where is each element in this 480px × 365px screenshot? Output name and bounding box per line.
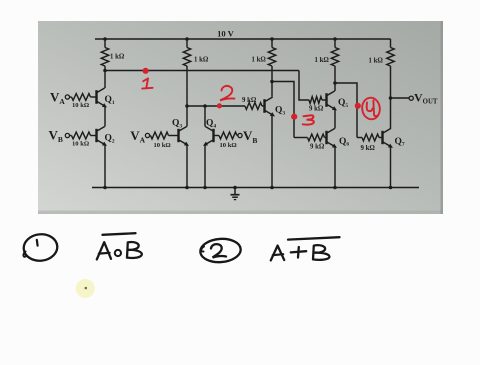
ground symbol bbox=[234, 188, 236, 195]
handwritten A.B overline bbox=[103, 233, 136, 235]
handwritten circled 1 bbox=[22, 233, 58, 263]
transistor Q3 bbox=[177, 129, 179, 142]
resistor 9k (node2 to Q5 base... mid transistor base) bbox=[245, 103, 262, 110]
transistor Q6 bbox=[325, 131, 327, 144]
node 3 wiring bbox=[270, 80, 274, 84]
handwritten A (expr2) bbox=[271, 246, 284, 261]
handwritten dot (expr1) bbox=[115, 250, 121, 256]
red circled 4 bbox=[361, 97, 381, 121]
red node marker 3 bbox=[291, 114, 297, 120]
handwritten B (expr1) bbox=[127, 242, 142, 258]
svg-text:9 kΩ: 9 kΩ bbox=[361, 145, 376, 152]
red handwritten 1 bbox=[143, 78, 148, 88]
output VOUT bbox=[389, 96, 393, 100]
svg-text:10 kΩ: 10 kΩ bbox=[72, 102, 89, 109]
handwritten plus (expr2) bbox=[291, 247, 306, 258]
svg-text:1 kΩ: 1 kΩ bbox=[315, 57, 330, 64]
svg-text:1 kΩ: 1 kΩ bbox=[369, 57, 384, 64]
svg-text:10 kΩ: 10 kΩ bbox=[72, 141, 89, 148]
input VB (Q4) bbox=[214, 135, 220, 137]
red node marker 1 bbox=[143, 68, 149, 74]
svg-text:9 kΩ: 9 kΩ bbox=[309, 106, 324, 113]
transistor Q7 bbox=[381, 131, 383, 144]
wire node1 to Q5 base bbox=[299, 71, 309, 101]
yellow pointer dot bbox=[76, 279, 95, 298]
svg-text:9 kΩ: 9 kΩ bbox=[242, 97, 257, 104]
handwritten circled 2 bbox=[200, 238, 242, 264]
node 4 wiring bbox=[333, 81, 337, 85]
svg-text:9 kΩ: 9 kΩ bbox=[310, 143, 325, 150]
resistor R4 1k bbox=[331, 48, 338, 67]
svg-text:1 kΩ: 1 kΩ bbox=[252, 57, 267, 64]
red node marker 4 bbox=[355, 103, 361, 109]
photo of schematic (gray rectangle) bbox=[38, 21, 443, 214]
wire 10V top rail bbox=[95, 38, 391, 40]
handwritten A+B overline bbox=[288, 237, 340, 239]
resistor R3 1k bbox=[268, 48, 275, 67]
handwritten A (expr1) bbox=[97, 242, 111, 259]
red handwritten 2 bbox=[220, 86, 235, 101]
transistor Q5 bbox=[325, 93, 327, 107]
transistor Q2 bbox=[95, 129, 97, 142]
transistor Q1 bbox=[95, 90, 97, 104]
svg-text:10 kΩ: 10 kΩ bbox=[220, 142, 237, 149]
svg-text:1 kΩ: 1 kΩ bbox=[110, 54, 125, 61]
svg-text:1 kΩ: 1 kΩ bbox=[194, 57, 209, 64]
resistor R1 1k bbox=[101, 48, 108, 67]
handwritten B (expr2) bbox=[313, 245, 329, 260]
node 1 bbox=[103, 69, 107, 73]
transistor Q3b (middle inverter) bbox=[263, 99, 265, 113]
svg-text:10 V: 10 V bbox=[217, 29, 235, 39]
svg-text:10 kΩ: 10 kΩ bbox=[154, 142, 171, 149]
node 2 bbox=[185, 104, 189, 108]
wire ground rail bbox=[92, 187, 419, 189]
red node marker 2 bbox=[217, 103, 222, 108]
resistor R2 1k bbox=[183, 48, 190, 67]
red handwritten 3 bbox=[303, 115, 314, 124]
resistor R5 1k bbox=[387, 48, 394, 67]
transistor Q4 bbox=[212, 129, 214, 142]
